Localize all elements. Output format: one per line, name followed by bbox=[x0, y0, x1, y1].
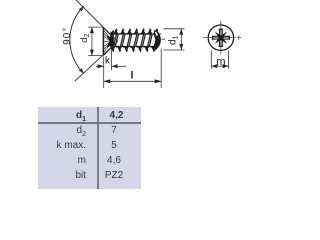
thread helix flank lines bbox=[114, 34, 160, 47]
l dimension line bbox=[104, 80, 162, 82]
pozidriv center bbox=[218, 35, 223, 40]
m dimension line bbox=[211, 65, 228, 67]
pozidriv vertical slot bbox=[219, 29, 223, 46]
screw head face bbox=[102, 28, 104, 56]
recess fan lines in head bbox=[103, 30, 110, 53]
centerline end cross bbox=[237, 36, 241, 40]
svg-text:m: m bbox=[216, 56, 225, 68]
svg-text:l: l bbox=[131, 70, 134, 82]
horizontal centerline bbox=[203, 37, 237, 39]
svg-text:d1: d1 bbox=[168, 35, 180, 45]
row k max bbox=[38, 140, 86, 151]
vertical centerline bbox=[220, 21, 222, 55]
data table bbox=[38, 107, 141, 189]
k dimension line with outside arrows bbox=[96, 65, 104, 67]
head top view circle bbox=[208, 25, 233, 50]
row bit bbox=[38, 170, 86, 181]
thread body root lines bbox=[112, 34, 157, 47]
recess dark wedge bbox=[107, 35, 113, 47]
screw head cone outline bbox=[103, 28, 112, 56]
d2 dimension line bbox=[91, 27, 93, 55]
d1 extension lines bbox=[163, 29, 184, 50]
header underline bbox=[38, 122, 141, 124]
pozidriv diagonal wedges bbox=[221, 38, 227, 44]
90deg arc bbox=[70, 6, 84, 74]
svg-text:k: k bbox=[105, 55, 111, 66]
k right extension line bbox=[111, 48, 113, 71]
thread bottom teeth bbox=[111, 46, 117, 51]
header d1 bbox=[38, 110, 86, 123]
row d2 bbox=[38, 125, 86, 138]
pozidriv horizontal slot bbox=[212, 36, 229, 40]
svg-text:90°: 90° bbox=[62, 27, 73, 45]
d1 dimension line bbox=[180, 29, 182, 50]
thread top teeth bbox=[114, 29, 120, 34]
l right extension line bbox=[160, 49, 162, 88]
axis dash beyond tip bbox=[162, 38, 166, 40]
90deg cone extension lines bbox=[75, 0, 118, 81]
d2 extension lines bbox=[88, 27, 103, 55]
column divider bbox=[97, 107, 98, 189]
first thread flank dark bar bbox=[110, 30, 114, 51]
left extension line (k and l) bbox=[103, 56, 105, 88]
90deg arc arrowheads bbox=[79, 6, 84, 12]
m extension lines bbox=[211, 51, 228, 69]
header value 4,2 bbox=[98, 110, 135, 121]
row m bbox=[38, 155, 86, 166]
screw tip bbox=[153, 30, 161, 51]
svg-text:d2: d2 bbox=[79, 34, 91, 43]
